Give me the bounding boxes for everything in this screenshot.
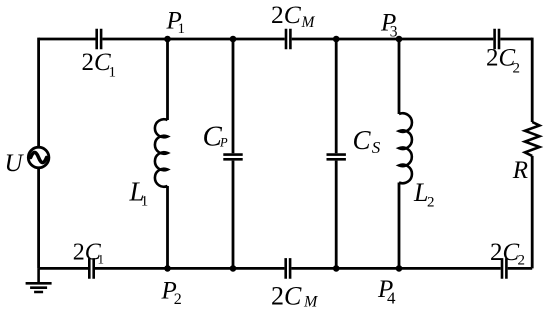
svg-text:2C: 2C	[490, 239, 520, 266]
svg-text:M: M	[301, 14, 316, 31]
svg-text:R: R	[512, 157, 528, 184]
resistor R	[525, 122, 540, 156]
wire left side: top corner down to source	[37, 38, 40, 148]
capacitor 2C1 (bottom)	[89, 258, 93, 279]
svg-text:U: U	[5, 150, 25, 177]
wire bottom side: CS branch to node P4	[336, 267, 399, 270]
capacitor CS	[327, 155, 346, 160]
capacitor 2C1 (top)	[97, 29, 101, 50]
wire bottom side: CP branch to 2CM	[233, 267, 284, 270]
inductor L2	[399, 113, 412, 183]
wire bottom side: 2C2 to right corner	[508, 267, 533, 270]
wire top side: left corner to 2C1	[39, 38, 96, 41]
capacitor 2CM (top)	[286, 29, 290, 50]
wire branch CP: top down to capacitor CP	[232, 39, 235, 153]
wire top side: P3 to 2C2	[399, 38, 493, 41]
node P4 junction dot	[396, 265, 403, 272]
node CP-bottom junction dot	[230, 265, 237, 272]
wire top side: CP branch to 2CM	[233, 38, 285, 41]
node CS-bottom junction dot	[333, 265, 340, 272]
wire right side: top corner down to resistor	[531, 38, 534, 122]
svg-text:2: 2	[174, 291, 182, 308]
inductor L1	[155, 119, 168, 187]
svg-text:2C: 2C	[271, 0, 302, 29]
wire bottom side: P4 to 2C2	[399, 267, 501, 270]
svg-text:1: 1	[141, 193, 149, 209]
node CP-top junction dot	[230, 36, 237, 43]
ground	[26, 268, 52, 292]
svg-text:2C: 2C	[486, 45, 516, 72]
wire left side: source down to bottom corner	[37, 168, 40, 269]
svg-text:P: P	[219, 136, 228, 150]
capacitor CP	[223, 155, 242, 160]
svg-text:3: 3	[390, 24, 398, 41]
wire bottom side: 2C1 to node P2	[95, 267, 168, 270]
capacitor 2C2 (top)	[495, 29, 499, 50]
node P3 junction dot	[396, 36, 403, 43]
capacitor 2CM (bottom)	[286, 258, 290, 279]
svg-text:2: 2	[427, 194, 435, 210]
wire branch P4: L2 down to bottom node	[398, 183, 401, 269]
wire top side: 2C1 to node P1	[102, 38, 167, 41]
svg-text:2C: 2C	[82, 49, 112, 76]
AC source U	[28, 147, 49, 168]
wire branch P2: L1 down to bottom node	[166, 186, 169, 268]
svg-text:2: 2	[513, 60, 521, 76]
svg-text:4: 4	[387, 289, 396, 308]
wire bottom side: left corner to 2C1	[39, 267, 88, 270]
svg-text:C: C	[353, 125, 372, 155]
wire bottom side: P2 to CP branch	[168, 267, 234, 270]
wire top side: P1 to CP branch	[168, 38, 234, 41]
wire branch CS: capacitor CS down to bottom	[335, 161, 338, 269]
svg-text:1: 1	[178, 21, 186, 37]
wire top side: 2CM to CS branch	[292, 38, 337, 41]
wire branch P1: top node down to L1	[166, 39, 169, 120]
wire branch CP: capacitor CP down to bottom	[232, 161, 235, 269]
capacitor 2C2 (bottom)	[502, 258, 506, 279]
svg-text:M: M	[303, 293, 319, 310]
svg-text:2: 2	[518, 253, 526, 269]
node P2 junction dot	[164, 265, 171, 272]
svg-text:S: S	[372, 138, 381, 157]
wire top side: 2C2 to right corner	[500, 38, 532, 41]
svg-text:2C: 2C	[271, 281, 302, 310]
wire branch CS: top down to capacitor CS	[335, 39, 338, 153]
wire bottom side: 2CM to CS branch	[291, 267, 336, 270]
node CS-top junction dot	[333, 36, 340, 43]
svg-text:1: 1	[109, 65, 117, 81]
svg-text:1: 1	[98, 252, 105, 267]
wire right side: resistor down to bottom corner	[531, 156, 534, 269]
wire branch P3: top node down to L2	[398, 39, 401, 114]
wire top side: CS branch to node P3	[336, 38, 399, 41]
node P1 junction dot	[164, 36, 171, 43]
